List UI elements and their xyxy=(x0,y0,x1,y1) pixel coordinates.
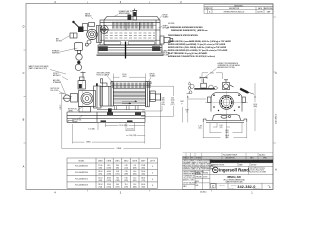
svg-text:DWG NO.: DWG NO. xyxy=(231,184,237,186)
inlet pipe dark diagonal xyxy=(240,88,250,94)
leader air inlet xyxy=(62,77,68,81)
motor circle xyxy=(87,29,98,40)
centerline front valve xyxy=(82,71,84,112)
svg-text:4.12: 4.12 xyxy=(161,102,164,104)
svg-text:44.00: 44.00 xyxy=(107,171,111,173)
svg-text:24.00: 24.00 xyxy=(141,171,145,173)
border frame xyxy=(26,4,273,190)
strainer xyxy=(64,95,71,102)
gear housing xyxy=(63,73,111,113)
end view left dim xyxy=(187,96,189,123)
foot block left xyxy=(99,46,108,51)
left vertical dim front view xyxy=(59,94,64,149)
svg-text:(86): (86) xyxy=(162,99,165,101)
svg-text:(724): (724) xyxy=(98,186,102,188)
svg-text:(114): (114) xyxy=(171,99,175,101)
svg-text:28.00: 28.00 xyxy=(141,178,145,180)
svg-text:10/07/97: 10/07/97 xyxy=(251,165,257,167)
svg-text:CHECKED: CHECKED xyxy=(195,177,201,179)
end view top dim 9.00 xyxy=(202,73,223,82)
svg-text:RATED LINE SPEED (mid-DRUM): 7: RATED LINE SPEED (mid-DRUM): 70 fpm (21 … xyxy=(168,43,226,46)
svg-text:INLET PRESSURE: 90 psig (6.2 b: INLET PRESSURE: 90 psig (6.2 bar) DYNAMI… xyxy=(168,52,208,55)
svg-text:(239): (239) xyxy=(116,186,120,188)
flag note triangle xyxy=(188,82,191,84)
base front view xyxy=(67,112,145,122)
frame slot right xyxy=(128,41,155,44)
tolerance text xyxy=(183,171,208,188)
svg-text:D: D xyxy=(23,26,25,29)
brake actuator cluster xyxy=(223,80,234,90)
svg-text:(229): (229) xyxy=(124,180,128,182)
svg-text:(114): (114) xyxy=(124,167,128,169)
svg-text:(762): (762) xyxy=(141,186,145,188)
bottom row cells xyxy=(216,183,218,189)
notice bar dark xyxy=(210,160,273,163)
svg-text:(264): (264) xyxy=(133,174,137,176)
drawn by row xyxy=(211,164,257,167)
pipe tail line xyxy=(249,92,255,94)
svg-text:14.4: 14.4 xyxy=(133,184,136,186)
svg-text:(610): (610) xyxy=(141,174,145,176)
svg-text:G.ROSS: G.ROSS xyxy=(203,173,208,175)
svg-text:4.50: 4.50 xyxy=(171,97,174,99)
ext lines xyxy=(104,123,106,127)
svg-text:SIZE: SIZE xyxy=(195,185,198,187)
motor end circle on body xyxy=(100,26,108,34)
end view label xyxy=(218,62,240,69)
svg-text:(305): (305) xyxy=(122,76,126,78)
svg-text:MUFFLER: MUFFLER xyxy=(52,53,60,55)
svg-text:12.00 (305): 12.00 (305) xyxy=(119,125,128,127)
control valve xyxy=(200,77,207,88)
stack leaders xyxy=(161,106,163,111)
inlet elbow xyxy=(71,94,78,103)
side flange left xyxy=(208,97,212,103)
leader drum guard xyxy=(158,16,162,21)
drum circle outer xyxy=(220,95,234,109)
svg-text:RATED LINE PULL (FULL DRUM): 2: RATED LINE PULL (FULL DRUM): 2,400 lbs (… xyxy=(168,46,227,49)
pedestal xyxy=(79,107,91,113)
svg-text:(368): (368) xyxy=(253,106,257,108)
side flange right xyxy=(242,97,246,103)
leader air motor xyxy=(62,36,70,41)
leader oil drain xyxy=(78,115,83,119)
svg-text:RATED LINE PULL (max-BARE DRUM: RATED LINE PULL (max-BARE DRUM): 4,000 l… xyxy=(168,40,232,43)
svg-text:.XX=.06 .XXX=.030: .XX=.06 .XXX=.030 xyxy=(183,177,195,179)
svg-text:17.00: 17.00 xyxy=(98,165,102,167)
vent slot hatch top band row1 xyxy=(112,22,154,25)
svg-text:RATED LINE SPEED (FULL DRUM):: RATED LINE SPEED (FULL DRUM): 117 fpm (3… xyxy=(168,49,228,52)
housing bolt dots xyxy=(213,94,240,111)
motor adapter front xyxy=(94,86,102,108)
dim line 7.00 xyxy=(126,134,129,136)
svg-text:(315): (315) xyxy=(133,180,137,182)
end view base pan xyxy=(203,114,247,122)
svg-text:C: C xyxy=(23,72,25,75)
svg-text:C: C xyxy=(275,72,277,75)
svg-text:7.40: 7.40 xyxy=(116,178,119,180)
dim line 12.00 xyxy=(105,124,118,126)
svg-text:SHEET 1 OF 1: SHEET 1 OF 1 xyxy=(253,188,261,190)
svg-text:Ingersoll Rand.: Ingersoll Rand. xyxy=(219,168,250,173)
svg-text:(432): (432) xyxy=(98,167,102,169)
foot pad motor xyxy=(68,120,73,122)
valve top fitting xyxy=(89,23,95,27)
adapter plate xyxy=(96,26,101,43)
svg-text:LEVEL: LEVEL xyxy=(68,111,73,113)
svg-text:21.88: 21.88 xyxy=(141,165,145,167)
frame slot left xyxy=(104,41,121,44)
svg-text:NOMEN: NOMEN xyxy=(196,158,201,160)
body mid line xyxy=(100,29,160,31)
IR logo circle xyxy=(213,167,219,173)
leader safety valve xyxy=(50,70,66,75)
svg-text:MOTOR: MOTOR xyxy=(56,41,63,43)
leader exhaust xyxy=(114,15,118,17)
svg-text:1.50 (38): 1.50 (38) xyxy=(88,128,95,130)
valve handle lever xyxy=(74,23,81,30)
svg-text:(168): (168) xyxy=(133,167,137,169)
main divider xyxy=(209,159,211,189)
svg-text:9.00: 9.00 xyxy=(125,178,128,180)
body top inner line xyxy=(100,21,160,23)
svg-text:REVISED PER ECN 36671-09: REVISED PER ECN 36671-09 xyxy=(224,11,245,13)
svg-text:342-382-0: 342-382-0 xyxy=(237,185,255,189)
valve dark mark front xyxy=(79,84,82,88)
svg-text:48.00: 48.00 xyxy=(107,178,111,180)
gear oil vent dark fitting xyxy=(96,83,98,86)
motor side rail xyxy=(67,111,97,113)
svg-text:7.00 (178): 7.00 (178) xyxy=(129,135,137,137)
svg-text:WINCH, AIR: WINCH, AIR xyxy=(227,176,241,179)
valve front xyxy=(78,81,86,90)
svg-text:10.00: 10.00 xyxy=(225,135,229,137)
svg-text:5.00: 5.00 xyxy=(171,102,174,104)
svg-text:P/N: P/N xyxy=(191,158,193,160)
svg-text:3.40: 3.40 xyxy=(161,97,164,99)
svg-text:9.00: 9.00 xyxy=(210,73,213,75)
vent slot hatch mid band xyxy=(105,33,155,38)
left fitting cluster xyxy=(187,91,193,94)
dim line 2.12 xyxy=(126,129,134,131)
svg-text:Ingersoll-Rand Company: Ingersoll-Rand Company xyxy=(250,167,266,169)
svg-text:(189): (189) xyxy=(124,174,128,176)
svg-text:4: 4 xyxy=(152,166,153,168)
svg-text:(203): (203) xyxy=(225,132,229,134)
svg-text:FILL PLUG: FILL PLUG xyxy=(51,90,60,92)
svg-text:8.00: 8.00 xyxy=(225,130,228,132)
svg-text:MODEL: MODEL xyxy=(79,160,85,162)
svg-text:FUL-5000BST-X18: FUL-5000BST-X18 xyxy=(75,185,88,187)
svg-text:FUL-5000BST WINCH: FUL-5000BST WINCH xyxy=(223,154,237,156)
right dim stack A xyxy=(161,97,175,106)
svg-text:6: 6 xyxy=(152,173,153,175)
svg-text:NOTES:: NOTES: xyxy=(168,23,175,25)
dim line DIM A xyxy=(73,141,85,143)
base plate xyxy=(206,119,244,121)
svg-text:DIM B: DIM B xyxy=(117,148,121,150)
leader oil fill xyxy=(59,92,72,98)
svg-text:UNLESS OTHERWISE SPECIFIED: UNLESS OTHERWISE SPECIFIED xyxy=(183,171,204,173)
svg-text:9.40: 9.40 xyxy=(116,184,119,186)
rows right column xyxy=(210,162,273,164)
guard hatch band row2 xyxy=(112,86,150,89)
svg-text:(622): (622) xyxy=(98,180,102,182)
svg-text:(1118): (1118) xyxy=(107,174,112,176)
leader to valve xyxy=(205,69,217,78)
labels left of front view xyxy=(29,65,82,124)
svg-text:8: 8 xyxy=(152,185,153,187)
leader cable anchor xyxy=(159,50,162,52)
svg-text:(1321): (1321) xyxy=(107,186,112,188)
leader shaft keyway xyxy=(159,27,163,29)
svg-text:ECN: ECN xyxy=(208,8,211,10)
svg-text:10/7/97: 10/7/97 xyxy=(203,177,208,179)
svg-text:1.00: 1.00 xyxy=(219,125,222,127)
end view right dim xyxy=(254,83,256,131)
svg-text:QTY: QTY xyxy=(187,158,190,160)
motor assembly cluster xyxy=(70,23,102,71)
revisions header band xyxy=(204,4,273,6)
svg-text:DRUM: DRUM xyxy=(150,74,155,76)
svg-text:18.50: 18.50 xyxy=(98,171,102,173)
svg-text:14.50: 14.50 xyxy=(253,104,257,106)
svg-text:MOTOR OIL: MOTOR OIL xyxy=(68,109,77,111)
svg-text:DIM B: DIM B xyxy=(107,160,111,162)
leader oil level xyxy=(77,107,82,111)
gusset right dark xyxy=(135,112,141,115)
leader drum guard xyxy=(149,77,151,81)
dim above front view xyxy=(113,74,145,82)
svg-text:11.0: 11.0 xyxy=(125,184,128,186)
svg-text:REVISIONS: REVISIONS xyxy=(234,5,242,7)
svg-text:IR: IR xyxy=(214,168,217,172)
ext line L top xyxy=(141,86,174,116)
svg-text:342-382-0: 342-382-0 xyxy=(200,192,207,194)
zone ticks xyxy=(24,2,277,192)
svg-text:FUL-5000BST-X06: FUL-5000BST-X06 xyxy=(75,172,88,174)
svg-text:10.4: 10.4 xyxy=(133,171,136,173)
drum rope lines xyxy=(114,91,146,104)
svg-text:10/07/97: 10/07/97 xyxy=(257,11,263,13)
center lines xyxy=(205,101,248,103)
second left dim xyxy=(182,107,184,122)
svg-text:40.5: 40.5 xyxy=(107,165,110,167)
svg-text:F: F xyxy=(182,103,183,105)
bearing block right xyxy=(150,91,161,102)
svg-text:FUL-5000BST-X00: FUL-5000BST-X00 xyxy=(75,166,88,168)
valve body outline xyxy=(83,24,88,31)
svg-text:(470): (470) xyxy=(98,174,102,176)
svg-text:342-382-0: 342-382-0 xyxy=(276,113,278,124)
shaft right xyxy=(155,94,160,100)
parts list open row xyxy=(183,153,273,157)
valve dark block on body xyxy=(128,15,132,21)
leader muffler xyxy=(60,48,78,52)
leader strainer xyxy=(61,84,66,96)
svg-text:3.40: 3.40 xyxy=(116,165,119,167)
svg-text:DESCRIPTION: DESCRIPTION xyxy=(229,8,239,10)
leader valve handle xyxy=(91,17,93,19)
svg-text:DIM F: DIM F xyxy=(141,160,145,162)
svg-text:DESCRIPTION: DESCRIPTION xyxy=(225,158,234,160)
exhaust pipe xyxy=(133,11,137,21)
foot left xyxy=(203,119,206,122)
title block outline xyxy=(183,156,273,189)
svg-text:QTY H: QTY H xyxy=(150,160,156,162)
drum body outline xyxy=(113,89,145,106)
svg-text:(127): (127) xyxy=(171,104,175,106)
parts header text xyxy=(183,157,267,160)
svg-text:30.00: 30.00 xyxy=(141,184,145,186)
handle vertical bar xyxy=(125,42,127,59)
svg-text:6: 6 xyxy=(152,179,153,181)
hub inner xyxy=(223,99,230,106)
svg-text:WITHOUT THE WRITTEN PERMISSION: WITHOUT THE WRITTEN PERMISSION OF xyxy=(183,167,211,169)
svg-text:(188): (188) xyxy=(116,180,120,182)
vent slot hatch top band row2 xyxy=(112,26,154,29)
svg-text:FUL-5000BST-X12: FUL-5000BST-X12 xyxy=(75,178,88,180)
motor housing front xyxy=(79,91,96,107)
svg-text:DIMENSIONS IN BRACKETS [ ] ARE: DIMENSIONS IN BRACKETS [ ] ARE IN mm xyxy=(171,29,208,32)
gusset left dark xyxy=(107,112,113,115)
foot right xyxy=(244,119,247,122)
gear housing mount dark xyxy=(108,108,112,112)
svg-text:(86): (86) xyxy=(116,167,119,169)
foot pad right xyxy=(127,120,133,122)
hub dark ring xyxy=(221,97,232,108)
leader labels top view xyxy=(52,10,170,56)
svg-text:DIM E: DIM E xyxy=(132,160,136,162)
drum guard top arc line xyxy=(107,15,157,17)
table outline xyxy=(67,158,158,188)
revision table box xyxy=(204,7,273,14)
svg-text:342-382-0: 342-382-0 xyxy=(259,154,266,156)
svg-text:7.45: 7.45 xyxy=(125,171,128,173)
guard band divider xyxy=(111,84,151,86)
exhaust pipe dark segment xyxy=(133,12,136,17)
svg-text:2.12 (54): 2.12 (54) xyxy=(127,129,134,131)
shaft extension right xyxy=(160,36,173,44)
svg-text:PERFORMANCE SPECIFICATIONS:: PERFORMANCE SPECIFICATIONS: xyxy=(168,34,199,37)
svg-text:1.38: 1.38 xyxy=(198,126,201,128)
svg-text:(105): (105) xyxy=(161,104,165,106)
winch body outline xyxy=(100,20,160,45)
drum guard top xyxy=(111,82,151,84)
drum supports xyxy=(115,106,138,110)
svg-text:(556): (556) xyxy=(141,167,145,169)
svg-text:(279): (279) xyxy=(124,186,128,188)
svg-text:SPEC: SPEC xyxy=(263,158,267,160)
dim line DIM B xyxy=(62,148,115,150)
leader grooved drum xyxy=(107,76,114,84)
foot pad left xyxy=(101,120,107,122)
left column tolerance block xyxy=(183,169,210,171)
svg-text:FSCM NO.: FSCM NO. xyxy=(219,184,225,186)
drum flanges xyxy=(111,82,149,107)
manifold dark bar xyxy=(194,88,215,90)
svg-text:5.18: 5.18 xyxy=(116,171,119,173)
guard hatch band row1 xyxy=(112,83,150,86)
svg-text:28.50: 28.50 xyxy=(98,184,102,186)
elbow circles below motor xyxy=(87,40,91,44)
svg-text:(254): (254) xyxy=(225,137,229,139)
end view bottom dims xyxy=(203,123,247,139)
left rect fitting xyxy=(70,33,77,38)
svg-text:GROOVED DRUM: GROOVED DRUM xyxy=(97,73,111,75)
svg-text:(1219): (1219) xyxy=(107,180,112,182)
side frame rail xyxy=(100,39,160,41)
muffler dark nut xyxy=(77,61,80,64)
svg-text:POCKET: POCKET xyxy=(163,55,170,57)
vent band divider xyxy=(104,24,156,26)
svg-text:24.50: 24.50 xyxy=(98,178,102,180)
valve dark block xyxy=(78,27,84,33)
base upper rail xyxy=(97,109,145,111)
svg-text:MOTOR OIL: MOTOR OIL xyxy=(73,120,82,122)
muffler cylinder xyxy=(75,43,83,51)
disclaimer paragraph xyxy=(183,159,216,171)
foot block right xyxy=(152,46,160,51)
svg-text:MOTOR OIL: MOTOR OIL xyxy=(51,88,60,90)
dims below front view xyxy=(62,102,161,149)
svg-text:(366): (366) xyxy=(133,186,137,188)
svg-text:3/4 NPT: 3/4 NPT xyxy=(53,73,59,75)
address lines xyxy=(250,167,267,173)
parts header fill xyxy=(183,156,273,159)
body inner verticals xyxy=(103,20,105,45)
svg-text:DRUM: DRUM xyxy=(163,15,168,17)
handle knob xyxy=(72,21,74,23)
rope leader arrows xyxy=(122,101,137,105)
base underplate xyxy=(97,53,164,55)
svg-text:1. DIMENSIONS SHOWN ARE IN INC: 1. DIMENSIONS SHOWN ARE IN INCHES xyxy=(168,26,203,29)
motor bolt dots xyxy=(87,29,96,40)
left elbow fitting xyxy=(188,84,194,89)
right link circles xyxy=(209,85,218,89)
svg-text:52.00: 52.00 xyxy=(107,184,111,186)
end view housing xyxy=(208,93,246,112)
base rail xyxy=(98,45,162,53)
svg-text:AVERAGE AIR CONSUMPTION: 350 S: AVERAGE AIR CONSUMPTION: 350 SCFM (9.9 m… xyxy=(168,55,215,58)
svg-text:(711): (711) xyxy=(141,180,145,182)
svg-text:6.8: 6.8 xyxy=(134,165,136,167)
svg-text:12.4: 12.4 xyxy=(133,178,136,180)
svg-text:(132): (132) xyxy=(116,174,120,176)
svg-text:(1029): (1029) xyxy=(107,167,112,169)
svg-text:4.50: 4.50 xyxy=(125,165,128,167)
svg-text:DIM C: DIM C xyxy=(60,104,62,110)
